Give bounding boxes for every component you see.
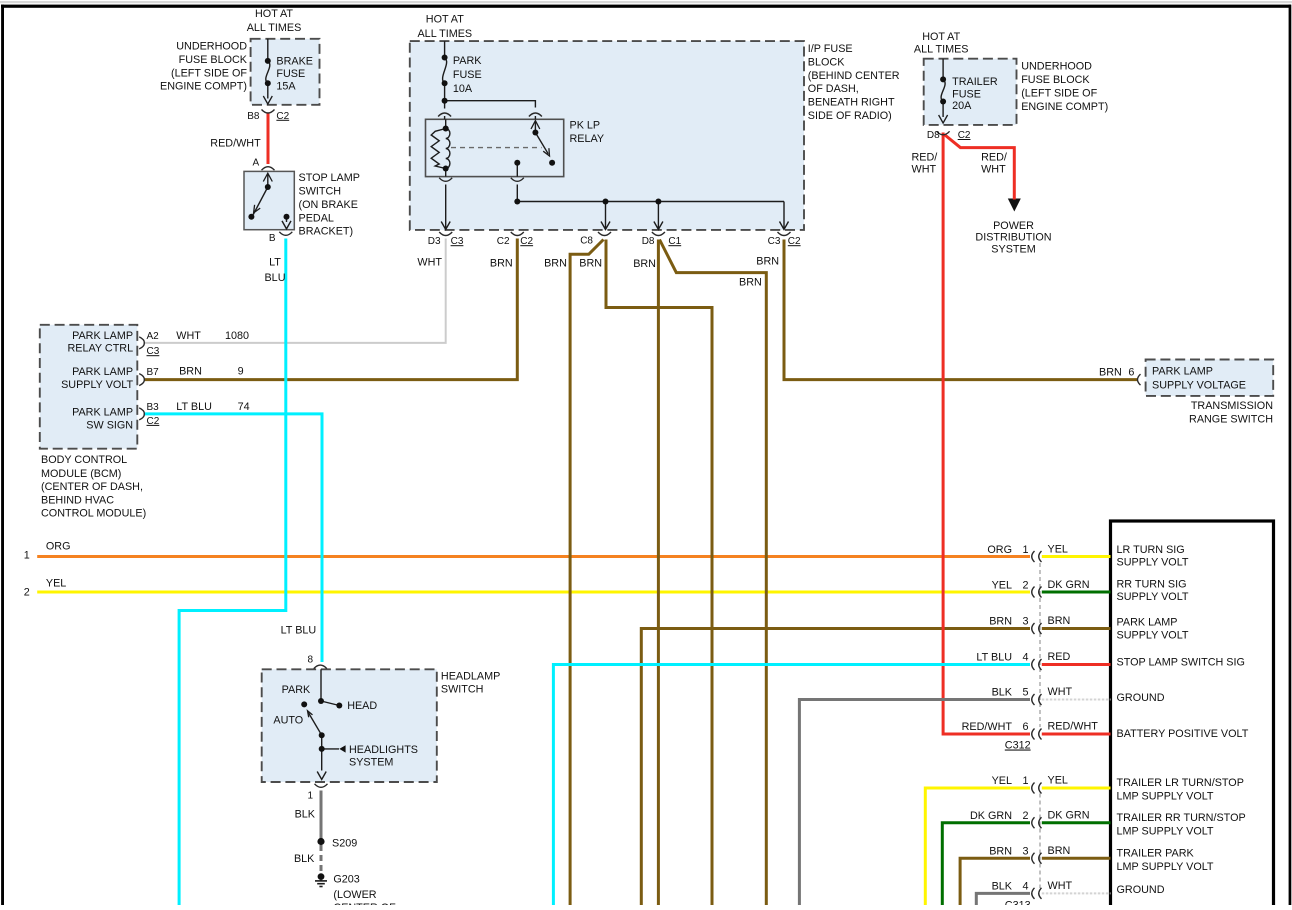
- svg-text:LT BLU: LT BLU: [176, 401, 212, 413]
- svg-text:YEL: YEL: [992, 580, 1012, 592]
- svg-text:PEDAL: PEDAL: [299, 212, 334, 224]
- svg-text:BRN: BRN: [1099, 366, 1122, 378]
- svg-text:C3: C3: [147, 346, 160, 357]
- svg-text:UNDERHOOD: UNDERHOOD: [1021, 60, 1092, 72]
- BCM pin B7 row labels: [61, 365, 244, 391]
- C312 pin2 bracket: [1032, 587, 1042, 598]
- svg-text:FUSE: FUSE: [453, 69, 482, 81]
- C312 pin1 bracket: [1032, 551, 1042, 562]
- wire BLK pigtail C313 pin4 corner: [976, 893, 1030, 905]
- C313 row4 labels: [992, 880, 1073, 893]
- TRS pin6 bracket: [1138, 374, 1141, 385]
- BCM pin B3 row labels: [72, 401, 250, 432]
- wire number 1 + ORG: [24, 540, 71, 561]
- label PK LP RELAY: [570, 119, 605, 144]
- wire YEL trailer C313 pin1: [925, 788, 1030, 905]
- svg-text:YEL: YEL: [1048, 775, 1068, 787]
- svg-text:BLK: BLK: [294, 853, 315, 865]
- svg-text:LT BLU: LT BLU: [281, 624, 317, 636]
- TRS pin6 labels BRN 6: [1099, 366, 1134, 378]
- C313 connector dashed line: [1039, 794, 1041, 889]
- wire fuse branch to relay switch: [445, 101, 536, 120]
- label LT BLU (stop lamp wire): [264, 257, 285, 284]
- wire LT BLU stop lamp switch B down-left: [179, 239, 286, 906]
- connector bracket C3/C2: [778, 232, 791, 236]
- headlamp switch internal labels: [273, 684, 418, 769]
- relay box U1 PK LP RELAY: [426, 119, 564, 176]
- svg-text:LMP SUPPLY VOLT: LMP SUPPLY VOLT: [1117, 826, 1214, 838]
- fuse BRAKE 15A symbol: [263, 39, 272, 104]
- svg-text:BRACKET): BRACKET): [299, 226, 354, 238]
- svg-text:GROUND: GROUND: [1117, 884, 1165, 896]
- I/P fuse block box: [410, 41, 804, 230]
- svg-text:ORG: ORG: [987, 544, 1012, 556]
- svg-text:FUSE: FUSE: [276, 68, 305, 80]
- svg-text:1: 1: [307, 790, 313, 801]
- svg-text:SWITCH: SWITCH: [299, 186, 342, 198]
- svg-text:SUPPLY VOLTAGE: SUPPLY VOLTAGE: [1152, 380, 1246, 392]
- svg-text:SW SIGN: SW SIGN: [86, 420, 133, 432]
- transmission range switch connector box: [1146, 360, 1274, 396]
- C312 row1 labels: [987, 544, 1068, 557]
- svg-text:CONTROL MODULE): CONTROL MODULE): [41, 508, 146, 520]
- svg-text:(LOWER: (LOWER: [333, 889, 376, 901]
- svg-text:(LEFT SIDE OF: (LEFT SIDE OF: [171, 67, 247, 79]
- svg-text:LR TURN SIG: LR TURN SIG: [1117, 544, 1185, 556]
- svg-text:FUSE: FUSE: [952, 88, 981, 100]
- C312 row4 labels: [976, 651, 1070, 664]
- headlamp switch internals: [308, 669, 340, 779]
- svg-text:SUPPLY VOLT: SUPPLY VOLT: [61, 379, 133, 391]
- svg-text:1: 1: [24, 549, 30, 561]
- drop to C3/C2 connector: [780, 202, 789, 230]
- label TRAILER FUSE 20A: [952, 76, 998, 112]
- svg-text:BRN: BRN: [739, 277, 762, 289]
- wire BLK S209 to G203 (dashed): [320, 845, 323, 872]
- svg-text:C2: C2: [958, 130, 971, 141]
- svg-text:UNDERHOOD: UNDERHOOD: [176, 41, 247, 53]
- svg-text:2: 2: [1022, 580, 1028, 592]
- svg-text:FUSE BLOCK: FUSE BLOCK: [1021, 74, 1090, 86]
- svg-text:6: 6: [1128, 366, 1134, 378]
- labels RED/WHT x2: [912, 151, 1007, 175]
- svg-text:SYSTEM: SYSTEM: [349, 757, 393, 769]
- wire RED/WHT brake fuse to stop lamp switch: [267, 114, 270, 165]
- connector bracket B8/C2: [262, 110, 275, 114]
- svg-text:C2: C2: [276, 111, 289, 122]
- wire RED pigtail C312 pin4: [1042, 663, 1111, 666]
- svg-text:RED/WHT: RED/WHT: [210, 137, 261, 149]
- svg-text:RANGE SWITCH: RANGE SWITCH: [1189, 413, 1273, 425]
- C313 row3 labels: [989, 845, 1070, 858]
- wire YEL to C312 pin2: [37, 591, 1030, 594]
- wire BRN from C8 (branch b): [606, 240, 712, 906]
- label PARK LAMP SUPPLY VOLTAGE: [1152, 366, 1246, 392]
- wire DK GRN trailer C313 pin2: [942, 823, 1030, 905]
- S209 splice dot: [317, 838, 324, 845]
- C313 pin2 bracket: [1032, 817, 1042, 828]
- C313 pin3 bracket: [1032, 853, 1042, 864]
- connector bracket headlamp pin 8: [314, 665, 327, 669]
- relay switch output to C2 connector: [516, 163, 518, 202]
- svg-text:C2: C2: [788, 236, 801, 247]
- svg-text:BATTERY POSITIVE VOLT: BATTERY POSITIVE VOLT: [1117, 728, 1249, 740]
- label HOT AT ALL TIMES (trailer fuse): [914, 31, 969, 56]
- svg-text:TRAILER RR TURN/STOP: TRAILER RR TURN/STOP: [1117, 812, 1246, 824]
- svg-text:2: 2: [24, 587, 30, 599]
- svg-text:HEAD: HEAD: [347, 700, 377, 712]
- label I/P FUSE BLOCK: [808, 43, 900, 122]
- G203 ground symbol: [315, 873, 327, 886]
- BCM box: [40, 325, 138, 449]
- C312 pin4 bracket: [1032, 659, 1042, 670]
- label underhood fuse block (left): [160, 41, 248, 93]
- svg-text:C2: C2: [520, 236, 533, 247]
- label PARK FUSE 10A: [453, 55, 482, 95]
- connector bracket B (stop lamp switch): [279, 232, 292, 236]
- svg-text:ALL TIMES: ALL TIMES: [247, 22, 302, 34]
- svg-text:BENEATH RIGHT: BENEATH RIGHT: [808, 97, 895, 109]
- svg-text:A: A: [253, 158, 260, 169]
- junction and contact dots: [248, 55, 946, 752]
- wire WHT 1080 from BCM A2 to fuse block D3: [145, 239, 446, 343]
- svg-text:BRN: BRN: [579, 258, 602, 270]
- svg-text:PK LP: PK LP: [570, 119, 601, 131]
- connector bracket C8: [598, 232, 611, 236]
- svg-text:PARK: PARK: [453, 55, 482, 67]
- svg-text:RELAY: RELAY: [570, 133, 605, 145]
- svg-text:ENGINE COMPT): ENGINE COMPT): [160, 81, 247, 93]
- svg-text:BLK: BLK: [992, 687, 1013, 699]
- svg-text:ALL TIMES: ALL TIMES: [914, 44, 969, 56]
- svg-text:(CENTER OF DASH,: (CENTER OF DASH,: [41, 481, 143, 493]
- svg-text:PARK: PARK: [282, 684, 311, 696]
- svg-text:BLK: BLK: [295, 808, 316, 820]
- wire BLK headlamp pin1 to S209: [320, 791, 323, 842]
- svg-text:OF DASH,: OF DASH,: [808, 83, 859, 95]
- C313 pin1 bracket: [1032, 783, 1042, 794]
- C312 pin5 bracket: [1032, 694, 1042, 705]
- svg-text:HOT AT: HOT AT: [922, 31, 960, 43]
- svg-text:BRN: BRN: [1048, 845, 1071, 857]
- svg-text:LT BLU: LT BLU: [976, 652, 1012, 664]
- arrow to HEADLIGHTS SYSTEM: [339, 745, 345, 752]
- svg-text:RR TURN SIG: RR TURN SIG: [1117, 578, 1187, 590]
- C313 row2 labels: [970, 809, 1090, 822]
- svg-text:PARK LAMP: PARK LAMP: [72, 366, 133, 378]
- svg-text:FUSE BLOCK: FUSE BLOCK: [179, 54, 248, 66]
- wire labels under I/P block: [417, 256, 779, 289]
- svg-text:C3: C3: [768, 236, 781, 247]
- svg-text:B: B: [269, 233, 276, 244]
- svg-text:1: 1: [1022, 775, 1028, 787]
- label HOT AT ALL TIMES (brake fuse): [247, 8, 302, 34]
- pin label D8 / C2 (trailer): [927, 130, 971, 141]
- svg-text:BRN: BRN: [179, 365, 202, 377]
- label BLK x2: [294, 808, 316, 865]
- svg-text:DK GRN: DK GRN: [1048, 579, 1090, 591]
- svg-text:BODY CONTROL: BODY CONTROL: [41, 454, 127, 466]
- svg-text:C2: C2: [497, 236, 510, 247]
- svg-text:WHT: WHT: [1048, 880, 1073, 892]
- connector bracket A (stop lamp switch): [262, 167, 275, 171]
- svg-text:4: 4: [1022, 652, 1028, 664]
- svg-text:BRN: BRN: [1048, 615, 1071, 627]
- wire BLK from C312 pin5: [799, 700, 1030, 906]
- svg-text:RED/WHT: RED/WHT: [1048, 721, 1099, 733]
- svg-text:LMP SUPPLY VOLT: LMP SUPPLY VOLT: [1117, 861, 1214, 873]
- svg-text:YEL: YEL: [46, 578, 66, 590]
- wire BRN relay C2 to BCM B7: [145, 239, 518, 380]
- svg-text:TRAILER LR TURN/STOP: TRAILER LR TURN/STOP: [1117, 777, 1244, 789]
- label BODY CONTROL MODULE: [41, 454, 146, 520]
- svg-text:(BEHIND CENTER: (BEHIND CENTER: [808, 70, 900, 82]
- wire fuse to relay coil: [444, 101, 446, 120]
- relay actuation dashed line: [451, 147, 542, 149]
- svg-text:RED/: RED/: [912, 151, 938, 163]
- svg-text:LT: LT: [269, 257, 281, 269]
- svg-text:(ON BRAKE: (ON BRAKE: [299, 199, 358, 211]
- wire LT BLU BCM B3 to headlamp switch pin8: [145, 414, 323, 662]
- relay switch contacts: [531, 121, 550, 156]
- svg-text:I/P FUSE: I/P FUSE: [808, 43, 853, 55]
- svg-text:B8: B8: [247, 111, 260, 122]
- svg-text:BRN: BRN: [756, 256, 779, 268]
- fuse TRAILER 20A symbol: [939, 59, 948, 123]
- svg-text:TRANSMISSION: TRANSMISSION: [1191, 400, 1273, 412]
- svg-text:74: 74: [238, 401, 250, 413]
- svg-text:LMP SUPPLY VOLT: LMP SUPPLY VOLT: [1117, 791, 1214, 803]
- svg-text:C312: C312: [1005, 740, 1031, 752]
- svg-text:HOT AT: HOT AT: [255, 8, 293, 20]
- wire DK GRN pigtail C313 pin2: [1042, 821, 1111, 824]
- svg-text:BRN: BRN: [633, 258, 656, 270]
- svg-text:D3: D3: [428, 236, 441, 247]
- svg-text:10A: 10A: [453, 83, 473, 95]
- svg-text:BRAKE: BRAKE: [276, 56, 313, 68]
- svg-text:STOP LAMP: STOP LAMP: [299, 172, 360, 184]
- svg-text:DK GRN: DK GRN: [970, 810, 1012, 822]
- wire BRN pigtail C312 pin3: [1042, 627, 1111, 630]
- svg-text:BLK: BLK: [992, 881, 1013, 893]
- svg-text:PARK LAMP: PARK LAMP: [1117, 616, 1178, 628]
- wire BRN from C3/C2 to transmission range switch: [784, 240, 1137, 380]
- svg-text:SUPPLY VOLT: SUPPLY VOLT: [1117, 630, 1189, 642]
- svg-text:B7: B7: [147, 367, 160, 378]
- svg-text:TRAILER PARK: TRAILER PARK: [1117, 847, 1195, 859]
- svg-text:C8: C8: [580, 236, 593, 247]
- svg-text:PARK LAMP: PARK LAMP: [72, 407, 133, 419]
- svg-text:POWER: POWER: [993, 220, 1034, 232]
- connector bracket C2/C2: [511, 232, 524, 236]
- connector brackets below relay: [439, 178, 452, 182]
- C313 row1 labels: [992, 775, 1068, 788]
- connector bracket D8/C1: [652, 232, 665, 236]
- svg-text:BLOCK: BLOCK: [808, 56, 845, 68]
- label TRANSMISSION RANGE SWITCH: [1189, 400, 1273, 425]
- wire LT BLU C312 pin4: [553, 665, 1030, 906]
- svg-text:(LEFT SIDE OF: (LEFT SIDE OF: [1021, 88, 1097, 100]
- trailer lamp module box (right): [1111, 521, 1274, 907]
- wire BRN to C312 pin3: [641, 629, 1030, 906]
- svg-text:ENGINE COMPT): ENGINE COMPT): [1021, 101, 1108, 113]
- svg-text:SYSTEM: SYSTEM: [991, 244, 1035, 256]
- fuse block box (underhood, brake fuse): [251, 39, 320, 105]
- svg-text:3: 3: [1022, 845, 1028, 857]
- label HEADLAMP SWITCH: [441, 671, 500, 696]
- pin label B8 / C2: [247, 111, 289, 122]
- svg-text:RELAY CTRL: RELAY CTRL: [67, 342, 133, 354]
- svg-text:5: 5: [1022, 687, 1028, 699]
- svg-text:15A: 15A: [276, 81, 296, 93]
- relay coil output to C3 connector: [441, 169, 450, 230]
- svg-text:3: 3: [1022, 616, 1028, 628]
- C312 pin6 bracket: [1032, 729, 1042, 740]
- svg-text:C313: C313: [1005, 900, 1031, 906]
- svg-text:4: 4: [1022, 881, 1028, 893]
- label POWER DISTRIBUTION SYSTEM: [975, 220, 1051, 256]
- wire number 2 + YEL: [24, 578, 67, 599]
- label G203 (LOWER CENTER OF: [333, 874, 396, 910]
- svg-text:9: 9: [238, 365, 244, 377]
- drop to C8 connector: [601, 202, 610, 230]
- C313 pin4 bracket: [1032, 888, 1042, 899]
- label BRAKE FUSE 15A: [276, 56, 313, 93]
- label underhood fuse block (right): [1021, 60, 1108, 113]
- svg-text:SIDE OF RADIO): SIDE OF RADIO): [808, 110, 892, 122]
- svg-text:S209: S209: [332, 838, 357, 850]
- svg-text:C2: C2: [147, 416, 160, 427]
- trailer fuse block box: [924, 59, 1017, 125]
- svg-text:HEADLIGHTS: HEADLIGHTS: [349, 744, 418, 756]
- svg-text:SUPPLY VOLT: SUPPLY VOLT: [1117, 556, 1189, 568]
- svg-text:G203: G203: [333, 874, 359, 886]
- svg-text:1080: 1080: [225, 330, 249, 342]
- svg-text:HOT AT: HOT AT: [426, 14, 464, 26]
- C312 row3 labels: [989, 615, 1070, 628]
- svg-text:YEL: YEL: [1048, 544, 1068, 556]
- svg-text:D8: D8: [642, 236, 655, 247]
- svg-text:DK GRN: DK GRN: [1048, 809, 1090, 821]
- C312 row2 labels: [992, 579, 1090, 592]
- wire BRN from C8 (branch a): [570, 240, 603, 906]
- label STOP LAMP SWITCH: [299, 172, 360, 238]
- wire BRN pigtail C313 pin3: [1042, 857, 1111, 860]
- svg-text:YEL: YEL: [992, 775, 1012, 787]
- svg-text:BRN: BRN: [490, 258, 513, 270]
- wire WHT pigtail C313 pin4: [1042, 892, 1111, 894]
- svg-text:BRN: BRN: [989, 845, 1012, 857]
- svg-text:AUTO: AUTO: [273, 715, 303, 727]
- C312 connector dashed line: [1039, 563, 1041, 727]
- C312 row5 labels: [992, 686, 1073, 699]
- svg-text:D8: D8: [927, 130, 940, 141]
- svg-text:STOP LAMP SWITCH SIG: STOP LAMP SWITCH SIG: [1117, 657, 1245, 669]
- right box row labels: [1117, 544, 1249, 896]
- svg-text:6: 6: [1022, 721, 1028, 733]
- drop to D8/C1 connector: [654, 202, 663, 230]
- svg-text:8: 8: [307, 655, 313, 666]
- wire WHT pigtail C312 pin5: [1042, 699, 1111, 701]
- wire RED/WHT pigtail C312 pin6: [1042, 733, 1111, 736]
- svg-text:GROUND: GROUND: [1117, 692, 1165, 704]
- C312 pin3 bracket: [1032, 623, 1042, 634]
- BCM pin A2 row labels: [67, 330, 249, 357]
- stop lamp switch box: [244, 171, 294, 229]
- svg-text:WHT: WHT: [981, 164, 1006, 176]
- BCM pin bracket B3/C2: [139, 408, 144, 420]
- svg-text:SWITCH: SWITCH: [441, 683, 484, 695]
- svg-text:C3: C3: [451, 236, 464, 247]
- wire BRN from D8/C1 (branch b): [660, 240, 767, 906]
- connector brackets above relay: [438, 113, 451, 117]
- wire RED/WHT trailer fuse to C312 pin6: [943, 133, 1030, 735]
- svg-text:SUPPLY VOLT: SUPPLY VOLT: [1117, 591, 1189, 603]
- arrow to POWER DISTRIBUTION SYSTEM: [1008, 199, 1021, 212]
- svg-text:RED: RED: [1048, 651, 1071, 663]
- headlamp switch box: [262, 669, 437, 782]
- svg-text:RED/WHT: RED/WHT: [962, 721, 1013, 733]
- wire RED/WHT branch to power distribution: [944, 135, 1014, 200]
- wire BRN to C313 pin3: [960, 858, 1030, 905]
- svg-text:WHT: WHT: [1048, 686, 1073, 698]
- svg-text:WHT: WHT: [912, 164, 937, 176]
- svg-text:WHT: WHT: [176, 330, 201, 342]
- bus wire inside I/P fuse block: [517, 201, 784, 203]
- svg-text:BRN: BRN: [989, 616, 1012, 628]
- svg-text:ORG: ORG: [46, 540, 71, 552]
- relay coil (resistor + inductor): [431, 119, 450, 168]
- C312 row6 labels: [962, 721, 1099, 734]
- svg-text:BLU: BLU: [264, 272, 285, 284]
- svg-text:C1: C1: [668, 236, 681, 247]
- wire ORG to C312 pin1: [37, 555, 1030, 558]
- wire BRN from D8/C1 (branch a): [657, 240, 660, 906]
- svg-text:1: 1: [1022, 544, 1028, 556]
- svg-text:BEHIND HVAC: BEHIND HVAC: [41, 494, 114, 506]
- wire DK GRN pigtail C312 pin2: [1042, 591, 1111, 594]
- svg-text:A2: A2: [147, 331, 160, 342]
- svg-text:20A: 20A: [952, 100, 972, 112]
- svg-text:RED/: RED/: [981, 151, 1007, 163]
- svg-text:BRN: BRN: [544, 258, 567, 270]
- svg-text:2: 2: [1022, 810, 1028, 822]
- connector bracket headlamp pin 1: [315, 784, 328, 788]
- connector bracket D8/C2 (trailer fuse): [937, 131, 950, 135]
- wire YEL pigtail C312 pin1: [1042, 555, 1111, 558]
- stop lamp switch internals: [253, 173, 291, 229]
- svg-text:B3: B3: [147, 402, 160, 413]
- svg-text:PARK LAMP: PARK LAMP: [1152, 366, 1213, 378]
- BCM pin bracket B7: [139, 374, 144, 386]
- fuse PARK 10A symbol: [443, 41, 447, 101]
- BCM pin bracket A2/C3: [139, 337, 144, 349]
- wire YEL pigtail C313 pin1: [1042, 787, 1111, 790]
- pin labels D3/C3 C2/C2 C8 D8/C1 C3/C2: [428, 236, 801, 248]
- svg-text:MODULE (BCM): MODULE (BCM): [41, 468, 121, 480]
- svg-text:PARK LAMP: PARK LAMP: [72, 330, 133, 342]
- svg-text:ALL TIMES: ALL TIMES: [417, 28, 472, 40]
- page top gray strip: [0, 1, 1292, 3]
- connector bracket D3/C3: [439, 232, 452, 236]
- svg-text:TRAILER: TRAILER: [952, 76, 998, 88]
- label HOT AT ALL TIMES (park fuse): [417, 14, 472, 40]
- svg-text:DISTRIBUTION: DISTRIBUTION: [975, 232, 1051, 244]
- svg-text:WHT: WHT: [417, 257, 442, 269]
- svg-text:HEADLAMP: HEADLAMP: [441, 671, 500, 683]
